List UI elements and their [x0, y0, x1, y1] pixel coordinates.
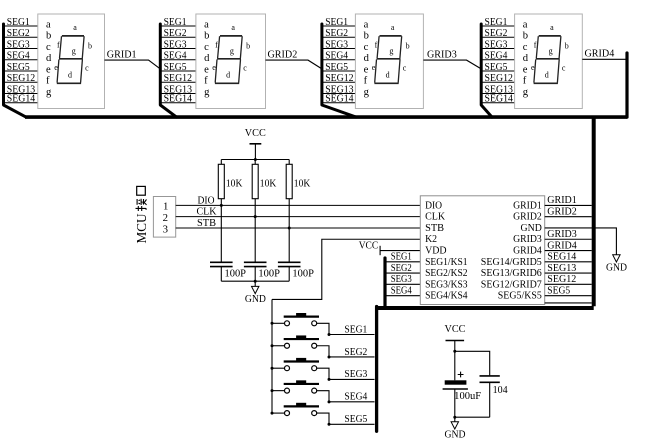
key S4 (tact switch) — [272, 380, 319, 393]
svg-text:b: b — [88, 42, 92, 51]
svg-text:a: a — [73, 23, 77, 32]
svg-text:K2: K2 — [425, 234, 437, 245]
svg-text:c: c — [46, 42, 51, 53]
wire SEG5 to DS4 — [481, 70, 514, 72]
svg-text:b: b — [523, 31, 528, 42]
wire GRID3 (display chain) — [423, 60, 481, 69]
IC U1 (LED driver) body — [420, 196, 544, 305]
svg-text:SEG1/KS1: SEG1/KS1 — [425, 257, 468, 268]
DS3 seven-segment digit glyph — [374, 36, 401, 83]
svg-text:a: a — [364, 19, 369, 30]
svg-text:SEG5: SEG5 — [547, 285, 570, 296]
capacitor C4 100uF electrolytic — [443, 372, 468, 422]
svg-text:a: a — [550, 23, 554, 32]
junction S1/SEG1 — [328, 333, 331, 336]
junction C4/C5 ground — [453, 416, 456, 419]
wire SEG13 to DS4 — [481, 93, 514, 95]
svg-text:f: f — [46, 76, 50, 87]
svg-text:MCU: MCU — [134, 213, 149, 243]
svg-text:e: e — [204, 64, 209, 75]
junction DIO/R1/C1 — [220, 204, 223, 207]
DS3 pin letters a-g — [364, 19, 370, 98]
svg-text:b: b — [204, 31, 209, 42]
wire capacitor ground rail — [221, 280, 289, 282]
svg-text:104: 104 — [493, 385, 508, 396]
wire SEG1 to DS3 — [322, 25, 356, 27]
svg-text:GRID2: GRID2 — [268, 49, 298, 60]
wire SEG3 to DS3 — [322, 48, 356, 50]
wire GRID1 (U1 to right bus) — [545, 204, 592, 206]
svg-text:SEG4: SEG4 — [325, 51, 348, 62]
svg-text:e: e — [372, 63, 376, 72]
wire SEG14 to DS4 — [481, 102, 514, 104]
svg-text:SEG4: SEG4 — [344, 392, 367, 403]
svg-text:SEG5: SEG5 — [485, 62, 508, 73]
svg-text:SEG14: SEG14 — [7, 94, 35, 105]
wire VCC rail to resistors — [221, 159, 289, 161]
svg-text:b: b — [406, 42, 410, 51]
svg-text:STB: STB — [425, 223, 444, 234]
svg-text:10K: 10K — [226, 178, 243, 189]
wire SEG4 to DS1 — [4, 59, 38, 61]
svg-text:1: 1 — [163, 201, 168, 213]
svg-text:SEG2: SEG2 — [344, 347, 367, 358]
svg-text:SEG3: SEG3 — [391, 274, 412, 285]
svg-text:c: c — [562, 64, 566, 73]
svg-text:c: c — [523, 42, 528, 53]
svg-text:GRID4: GRID4 — [513, 246, 542, 257]
junction key S2 rail — [271, 344, 274, 347]
svg-text:VDD: VDD — [425, 246, 447, 257]
svg-text:SEG12: SEG12 — [485, 73, 513, 84]
svg-text:c: c — [243, 64, 247, 73]
svg-text:10K: 10K — [294, 178, 311, 189]
svg-text:g: g — [204, 87, 210, 98]
svg-text:g: g — [549, 47, 553, 56]
wire SEG14 to DS2 — [160, 102, 196, 104]
svg-text:g: g — [364, 87, 370, 98]
svg-text:SEG5: SEG5 — [325, 62, 348, 73]
wire SEG2 to DS2 — [160, 36, 196, 38]
wire SEG12 to DS4 — [481, 81, 514, 83]
wire SEG13 (U1 to right bus) — [545, 272, 592, 274]
svg-text:VCC: VCC — [245, 128, 266, 139]
wire SEG12 to DS1 — [4, 81, 38, 83]
svg-text:d: d — [46, 53, 52, 64]
display DS4 body — [515, 14, 583, 109]
display DS1 body — [38, 14, 105, 109]
svg-text:c: c — [204, 42, 209, 53]
wire SEG2 to DS3 — [322, 36, 356, 38]
wire C5 ground return — [455, 416, 490, 418]
wire SEG1 to DS4 — [481, 25, 514, 27]
bus: top horizontal segment bus — [25, 115, 627, 119]
ground GND (U1) — [606, 255, 627, 274]
svg-text:GRID1: GRID1 — [107, 49, 137, 60]
junction S4/SEG4 — [328, 400, 331, 403]
connector J1 (MCU) body — [153, 197, 175, 238]
svg-text:a: a — [46, 19, 51, 30]
power VCC symbol (pull-ups) — [245, 128, 266, 159]
wire STB (J1-3 to U1) — [176, 227, 421, 229]
svg-text:f: f — [204, 76, 208, 87]
junction CLK/R2/C2 — [254, 215, 257, 218]
wire key S4 output — [317, 391, 329, 402]
key S5 (tact switch) — [272, 403, 319, 416]
svg-text:SEG2: SEG2 — [325, 28, 348, 39]
svg-text:10K: 10K — [260, 178, 277, 189]
svg-text:g: g — [46, 87, 52, 98]
wire SEG2 (key to bus) — [329, 356, 375, 358]
svg-text:VCC: VCC — [445, 324, 466, 335]
svg-text:GND: GND — [245, 294, 266, 305]
display DS1 seg-bus (thick vertical) — [4, 24, 27, 117]
wire SEG14 (U1 to right bus) — [545, 261, 592, 263]
resistor R1 10K — [218, 160, 224, 206]
wire CLK (J1-2 to U1) — [176, 216, 421, 218]
wire SEG5 to DS2 — [160, 70, 196, 72]
svg-text:SEG12: SEG12 — [164, 73, 192, 84]
svg-text:SEG4: SEG4 — [7, 51, 30, 62]
svg-text:SEG2: SEG2 — [485, 28, 508, 39]
svg-text:GRID2: GRID2 — [547, 206, 577, 217]
wire GND from U1 — [545, 228, 617, 255]
wire SEG5 to DS1 — [4, 70, 38, 72]
svg-text:CLK: CLK — [425, 212, 446, 223]
svg-text:e: e — [54, 63, 58, 72]
wire SEG1 to DS2 — [160, 25, 196, 27]
wire key S2 output — [317, 346, 329, 357]
svg-text:VCC: VCC — [359, 241, 379, 252]
svg-text:GRID1: GRID1 — [547, 195, 577, 206]
svg-text:GND: GND — [445, 430, 466, 441]
DS1 seven-segment digit glyph — [57, 36, 84, 83]
svg-text:SEG2/KS2: SEG2/KS2 — [425, 268, 468, 279]
junction key S1 rail — [271, 322, 274, 325]
wire SEG1 to DS1 — [4, 25, 38, 27]
svg-text:a: a — [391, 23, 395, 32]
wire unlabeled pin (U1 bottom-right) to bus — [545, 302, 592, 304]
svg-text:SEG4: SEG4 — [391, 285, 412, 296]
svg-text:SEG3: SEG3 — [325, 39, 348, 50]
svg-text:d: d — [68, 70, 72, 79]
display DS3 seg-bus (thick vertical) — [322, 24, 356, 117]
svg-text:CLK: CLK — [197, 207, 218, 218]
svg-text:SEG14: SEG14 — [164, 94, 192, 105]
svg-text:e: e — [531, 63, 535, 72]
svg-text:DIO: DIO — [425, 200, 443, 211]
wire SEG4 bus tap to U1/KS4 — [385, 295, 420, 297]
wire SEG12 to DS3 — [322, 81, 356, 83]
svg-text:SEG3: SEG3 — [485, 39, 508, 50]
DS2 seven-segment digit glyph — [215, 36, 242, 83]
svg-text:GRID4: GRID4 — [547, 240, 577, 251]
bus: right riser up to GRID4 — [625, 53, 628, 117]
DS2 segment name labels — [212, 23, 250, 80]
wire SEG13 to DS2 — [160, 93, 196, 95]
svg-text:3: 3 — [163, 223, 168, 235]
display DS2 body — [196, 14, 266, 109]
svg-text:f: f — [57, 41, 60, 50]
svg-text:SEG3/KS3: SEG3/KS3 — [425, 279, 468, 290]
svg-text:GRID4: GRID4 — [585, 48, 615, 59]
svg-text:c: c — [85, 64, 89, 73]
wire GRID2 (display chain) — [266, 60, 322, 69]
svg-text:SEG4/KS4: SEG4/KS4 — [425, 291, 468, 302]
ground GND (filter caps) — [445, 422, 466, 441]
DS4 seven-segment digit glyph — [534, 36, 561, 83]
svg-text:g: g — [72, 47, 76, 56]
svg-text:100P: 100P — [292, 268, 314, 279]
svg-text:d: d — [204, 53, 210, 64]
svg-text:a: a — [204, 19, 209, 30]
wire SEG3 to DS1 — [4, 48, 38, 50]
svg-text:e: e — [364, 64, 369, 75]
key S3 (tact switch) — [272, 358, 319, 371]
power VCC tap at VDD pin — [359, 241, 380, 256]
ground GND (caps) — [245, 281, 266, 305]
wire SEG12 (U1 to right bus) — [545, 283, 592, 285]
wire SEG4 (key to bus) — [329, 401, 375, 403]
label MCU interface (MCU接口) vertical — [134, 186, 149, 243]
svg-text:d: d — [386, 70, 390, 79]
svg-text:f: f — [534, 41, 537, 50]
wire key S5 output — [317, 413, 329, 424]
capacitor C3 100P — [278, 228, 301, 281]
svg-text:g: g — [230, 47, 234, 56]
DS4 segment name labels — [531, 23, 569, 80]
DS2 pin letters a-g — [204, 19, 210, 98]
svg-text:SEG3: SEG3 — [164, 39, 187, 50]
power VCC symbol (filter caps) — [445, 324, 466, 381]
svg-text:e: e — [212, 63, 216, 72]
wire SEG1 (key to bus) — [329, 334, 375, 336]
wire SEG2 to DS4 — [481, 36, 514, 38]
wire key S1 output — [317, 323, 329, 334]
wire SEG14 to DS1 — [4, 102, 38, 104]
svg-text:c: c — [403, 64, 407, 73]
junction STB/R3/C3 — [288, 226, 291, 229]
svg-text:a: a — [231, 23, 235, 32]
capacitor C2 100P — [244, 217, 267, 282]
svg-text:SEG1: SEG1 — [391, 252, 412, 263]
junction VCC branch — [453, 350, 456, 353]
wire SEG5 (U1 to right bus) — [545, 295, 592, 297]
DS3 segment name labels — [372, 23, 410, 80]
wire SEG1 bus tap to U1/KS1 — [385, 261, 420, 263]
svg-text:SEG5: SEG5 — [164, 62, 187, 73]
svg-text:b: b — [364, 31, 369, 42]
svg-text:f: f — [364, 76, 368, 87]
svg-text:SEG13: SEG13 — [547, 263, 576, 274]
wire GRID2 (U1 to right bus) — [545, 216, 592, 218]
display DS4 seg-bus (thick vertical) — [481, 24, 492, 117]
wire SEG5 (key to bus) — [329, 423, 375, 425]
svg-text:d: d — [226, 70, 230, 79]
wire SEG3 to DS4 — [481, 48, 514, 50]
svg-text:b: b — [46, 31, 51, 42]
svg-text:g: g — [523, 87, 529, 98]
svg-text:d: d — [523, 53, 529, 64]
svg-text:SEG14/GRID5: SEG14/GRID5 — [481, 257, 542, 268]
svg-text:e: e — [523, 64, 528, 75]
bus: left vertical drop to keys — [375, 307, 378, 432]
svg-text:SEG2: SEG2 — [391, 263, 412, 274]
svg-text:SEG3: SEG3 — [344, 369, 367, 380]
wire key common rail — [271, 299, 273, 413]
svg-text:b: b — [565, 42, 569, 51]
svg-text:GRID3: GRID3 — [547, 229, 577, 240]
DS1 segment name labels — [54, 23, 92, 80]
svg-text:SEG12/GRID7: SEG12/GRID7 — [481, 279, 542, 290]
junction key S5 rail — [271, 412, 274, 415]
wire SEG2 bus tap to U1/KS2 — [385, 272, 420, 274]
wire GRID3 (U1 to right bus) — [545, 238, 592, 240]
svg-text:GND: GND — [521, 223, 543, 234]
wire SEG4 to DS3 — [322, 59, 356, 61]
DS1 pin letters a-g — [46, 19, 52, 98]
wire VDD — [380, 250, 420, 252]
svg-text:SEG14: SEG14 — [325, 94, 353, 105]
svg-text:100P: 100P — [225, 268, 247, 279]
svg-text:f: f — [375, 41, 378, 50]
wire SEG5 to DS3 — [322, 70, 356, 72]
svg-text:GRID1: GRID1 — [513, 200, 542, 211]
wire SEG13 to DS3 — [322, 93, 356, 95]
wire SEG12 to DS2 — [160, 81, 196, 83]
svg-text:SEG1: SEG1 — [164, 17, 187, 28]
bus: short riser feeding SEG1-SEG4 into IC — [383, 258, 386, 308]
svg-text:GRID3: GRID3 — [513, 234, 542, 245]
wire key S3 output — [317, 368, 329, 379]
junction key S3 rail — [271, 367, 274, 370]
bus: bottom horizontal under IC — [375, 306, 594, 310]
svg-text:2: 2 — [163, 212, 168, 224]
bus: right vertical drop to IC area — [592, 117, 596, 306]
wire VCC to C5 — [455, 351, 490, 375]
svg-text:SEG1: SEG1 — [325, 17, 348, 28]
svg-text:SEG5: SEG5 — [344, 414, 367, 425]
capacitor C1 100P — [210, 205, 233, 281]
wire DIO (J1-1 to U1) — [176, 204, 421, 206]
svg-text:SEG2: SEG2 — [7, 28, 30, 39]
svg-text:GRID2: GRID2 — [513, 212, 542, 223]
svg-text:100P: 100P — [258, 268, 280, 279]
wire SEG3 bus tap to U1/KS3 — [385, 283, 420, 285]
wire SEG3 to DS2 — [160, 48, 196, 50]
junction S5/SEG5 — [328, 423, 331, 426]
svg-text:c: c — [364, 42, 369, 53]
svg-text:a: a — [523, 19, 528, 30]
resistor R2 10K — [252, 160, 258, 217]
svg-text:SEG2: SEG2 — [164, 28, 187, 39]
svg-text:SEG14: SEG14 — [547, 252, 576, 263]
svg-text:100uF: 100uF — [454, 391, 481, 402]
wire GRID1 (display chain) — [105, 60, 161, 69]
svg-text:SEG12: SEG12 — [547, 274, 576, 285]
svg-text:SEG4: SEG4 — [164, 51, 187, 62]
svg-text:SEG13/GRID6: SEG13/GRID6 — [481, 268, 542, 279]
svg-text:SEG1: SEG1 — [485, 17, 508, 28]
svg-text:SEG5: SEG5 — [7, 62, 30, 73]
wire SEG14 to DS3 — [322, 102, 356, 104]
wire SEG2 to DS1 — [4, 36, 38, 38]
svg-text:SEG14: SEG14 — [485, 94, 513, 105]
svg-text:d: d — [364, 53, 370, 64]
resistor R3 10K — [286, 160, 292, 228]
svg-text:SEG1: SEG1 — [344, 324, 367, 335]
svg-text:e: e — [46, 64, 51, 75]
wire SEG4 to DS4 — [481, 59, 514, 61]
wire GRID4 (U1 to right bus) — [545, 250, 592, 252]
svg-text:SEG5/KS5: SEG5/KS5 — [498, 291, 542, 302]
display DS2 seg-bus (thick vertical) — [160, 24, 176, 117]
DS4 pin letters a-g — [523, 19, 529, 98]
svg-text:d: d — [545, 70, 549, 79]
key S2 (tact switch) — [272, 335, 319, 348]
svg-text:GRID3: GRID3 — [427, 49, 457, 60]
wire SEG3 (key to bus) — [329, 378, 375, 380]
junction key S4 rail — [271, 389, 274, 392]
junction S2/SEG2 — [328, 355, 331, 358]
svg-text:b: b — [246, 42, 250, 51]
svg-text:SEG1: SEG1 — [7, 17, 30, 28]
wire SEG13 to DS1 — [4, 93, 38, 95]
svg-text:g: g — [389, 47, 393, 56]
svg-text:STB: STB — [197, 218, 216, 229]
svg-text:SEG12: SEG12 — [7, 73, 35, 84]
svg-text:SEG12: SEG12 — [325, 73, 353, 84]
junction cap ground rail — [254, 280, 257, 283]
svg-text:SEG4: SEG4 — [485, 51, 508, 62]
wire SEG4 to DS2 — [160, 59, 196, 61]
display DS3 body — [355, 14, 423, 109]
junction S3/SEG3 — [328, 378, 331, 381]
capacitor C5 104 — [480, 376, 500, 417]
svg-text:DIO: DIO — [198, 195, 216, 206]
svg-text:GND: GND — [606, 262, 627, 273]
svg-text:SEG3: SEG3 — [7, 39, 30, 50]
svg-text:f: f — [215, 41, 218, 50]
wire GRID4 to right bus — [582, 58, 627, 60]
wire K2 (U1 to key matrix) — [272, 239, 420, 299]
svg-text:f: f — [523, 76, 527, 87]
key S1 (tact switch) — [272, 313, 319, 326]
junction VCC rail — [254, 158, 257, 161]
